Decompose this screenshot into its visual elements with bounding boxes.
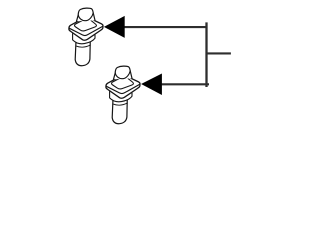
bolt 2 lower flange bolt	[106, 66, 140, 124]
leader line upper	[124, 26, 207, 28]
bracket tick	[206, 52, 231, 54]
arrowhead upper	[104, 16, 125, 38]
bracket vertical line	[205, 24, 207, 86]
arrowhead lower	[141, 74, 162, 96]
bolt 1 upper-left flange bolt	[69, 8, 103, 66]
leader line lower	[162, 83, 209, 85]
